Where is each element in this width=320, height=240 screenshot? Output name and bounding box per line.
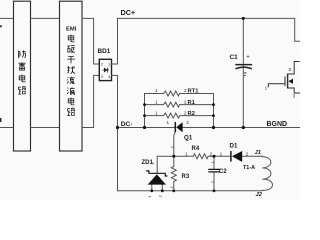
svg-text:2: 2 [210,151,213,156]
node: R4 / C2 / D1 [213,155,216,158]
block: EMI filter circuit [60,1,83,151]
svg-text:2: 2 [170,186,174,188]
rotated tiny pin labels [148,146,215,197]
resistor bank left bus [144,94,146,128]
mosfet gate lead [268,84,285,87]
wire: EMI bottom output to BD1 [82,75,99,127]
block: lightning protection circuit [14,1,31,151]
wire: C1 column [242,18,244,127]
capacitor C1 plates [236,64,251,66]
svg-text:2: 2 [101,63,103,67]
svg-text:DC-: DC- [121,121,133,128]
zener ZD1 cathode bar [147,171,167,176]
svg-text:1: 1 [185,151,188,156]
zener ZD1 top lead [156,171,158,173]
mosfet channel bar [287,74,289,89]
svg-text:4: 4 [108,75,110,79]
svg-text:DC+: DC+ [121,8,136,17]
svg-text:R2: R2 [188,111,195,117]
resistor R2 [145,113,214,118]
char 波 [67,87,75,94]
bridge rectifier BD1 [99,59,111,80]
svg-text:3: 3 [293,94,296,99]
char 雷 [18,63,25,71]
resistor bank right bus [213,94,215,128]
svg-text:2: 2 [211,181,215,183]
svg-text:R3: R3 [182,174,190,180]
svg-text:2: 2 [186,120,189,125]
svg-text:D1: D1 [230,143,238,150]
wire: DC- / BGND rail [118,127,301,129]
char 电 [68,35,74,42]
node: ZD1 leg 2 [161,189,164,192]
svg-text:1: 1 [108,63,110,67]
node: left bus R2 [143,114,146,117]
capacitor C2 plates [209,169,219,172]
svg-text:2: 2 [184,88,187,93]
svg-text:1: 1 [211,162,215,164]
CJK text: block1 防雷电路 [18,51,26,95]
wire: gate node to ZD1 [157,156,174,171]
svg-text:J1: J1 [255,150,261,156]
svg-text:2: 2 [184,111,187,116]
wire: DC+ vertical from BD1 [117,18,119,64]
wire: gate node to R4 [174,155,194,157]
edge tick top-left [0,25,2,27]
resistor R3 [171,156,176,191]
svg-text:3: 3 [171,146,175,148]
svg-text:1: 1 [155,88,158,93]
svg-text:3: 3 [101,75,103,79]
resistor R1 [145,102,214,107]
svg-text:J2: J2 [256,192,263,198]
wire: junction to D1 [214,155,231,157]
wire: EMI top output to BD1 [82,18,99,64]
char 电 [19,75,25,82]
svg-text:3: 3 [151,163,155,165]
svg-text:2: 2 [184,100,187,105]
wire: AC line bottom-left into lightning block [0,127,14,129]
svg-text:+: + [246,55,250,61]
svg-text:1: 1 [155,111,158,116]
resistor R4 [193,154,214,159]
svg-text:R4: R4 [192,146,200,152]
SCR Q1 cathode bar [174,122,176,132]
svg-text:EMI: EMI [66,26,77,32]
BD1 tiny pin numbers [101,63,110,79]
node: DC- / BD1 [116,126,119,129]
svg-text:R1: R1 [188,100,196,106]
resistor RT1 [145,91,214,96]
capacitor C2 column [213,156,215,191]
wire: bottom between blocks [31,127,60,129]
node: gate / R3 / R4 [172,155,175,158]
svg-text:RT1: RT1 [188,88,200,94]
BD1 internal diode [103,68,109,73]
svg-text:BGND: BGND [267,121,288,128]
node: C2 bottom [213,189,216,192]
edge tick mid-left [0,118,1,122]
mosfet gate bar [284,76,286,86]
wire: D1 to J1/coil [242,155,262,158]
transformer primary T1-A coil [262,157,272,191]
char 磁 [67,45,75,52]
svg-text:1: 1 [220,151,223,156]
char 路 [18,87,26,94]
svg-text:1: 1 [167,120,170,125]
wire: DC- vertical from BD1 down to bottom rail [117,75,119,190]
node: right bus R2 [212,114,215,117]
svg-text:1: 1 [148,196,152,198]
wire: top between blocks [31,17,60,19]
CJK text: block2 电磁干扰滤波电路 [67,35,75,116]
svg-text:Q1: Q1 [184,134,193,141]
char 干 [67,57,75,64]
char 路 [67,108,75,115]
node: left bus DC- [143,126,146,129]
svg-text:C2: C2 [219,169,227,175]
mosfet arrow [288,79,293,84]
char 扰 [67,66,75,74]
wire: bottom rail of snubber section [118,190,263,192]
svg-text:2: 2 [289,67,292,72]
zener ZD1 body [148,174,166,184]
wire: AC line top-left into lightning block [0,17,14,19]
node: ZD1 leg 1 [150,189,153,192]
char 滤 [67,77,75,84]
MOSFET on right edge [268,62,300,94]
svg-text:2: 2 [246,152,249,157]
diode D1 cathode bar [230,151,232,162]
label C1 minus mark [244,73,247,76]
node: DC+ / C1 [242,17,245,20]
zener ZD1 legs [152,184,163,191]
mosfet source lead [288,88,300,93]
node: R3 bottom [172,189,175,192]
node: right bus R1 [212,103,215,106]
svg-text:C1: C1 [230,54,239,61]
SCR Q1 body [176,122,182,132]
wire: DC+ rail [118,18,300,41]
node: right bus DC- [212,126,215,129]
node: left bus R1 [143,103,146,106]
diode D1 body [232,151,242,162]
pin number labels [155,67,296,156]
wire: BD1 right pins [112,63,118,65]
mosfet drain lead [288,62,300,75]
char 电 [68,98,74,105]
SCR Q1 gate lead [174,131,176,157]
svg-text:T1-A: T1-A [243,165,255,171]
svg-text:1: 1 [155,100,158,105]
svg-text:2: 2 [159,195,163,197]
node: C1 / BGND [242,126,245,129]
char 防 [19,51,26,59]
svg-text:BD1: BD1 [98,48,111,55]
